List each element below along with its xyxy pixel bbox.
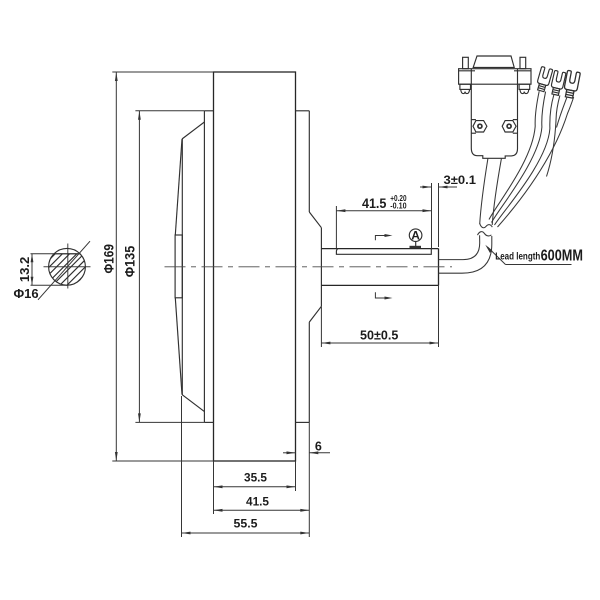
svg-text:-0.10: -0.10: [390, 200, 407, 210]
svg-text:Φ16: Φ16: [14, 286, 39, 301]
svg-text:Lead length: Lead length: [495, 250, 540, 262]
svg-text:3±0.1: 3±0.1: [444, 173, 477, 187]
svg-text:50±0.5: 50±0.5: [360, 327, 398, 342]
svg-text:41.5: 41.5: [362, 196, 387, 211]
svg-text:Φ135: Φ135: [121, 246, 137, 278]
svg-text:55.5: 55.5: [234, 517, 258, 531]
svg-text:41.5: 41.5: [246, 495, 269, 509]
svg-text:A: A: [411, 229, 420, 243]
svg-text:600MM: 600MM: [541, 247, 583, 264]
svg-text:Φ169: Φ169: [100, 244, 116, 274]
svg-text:35.5: 35.5: [244, 471, 267, 485]
svg-text:6: 6: [315, 440, 322, 454]
svg-text:13.2: 13.2: [17, 257, 32, 283]
